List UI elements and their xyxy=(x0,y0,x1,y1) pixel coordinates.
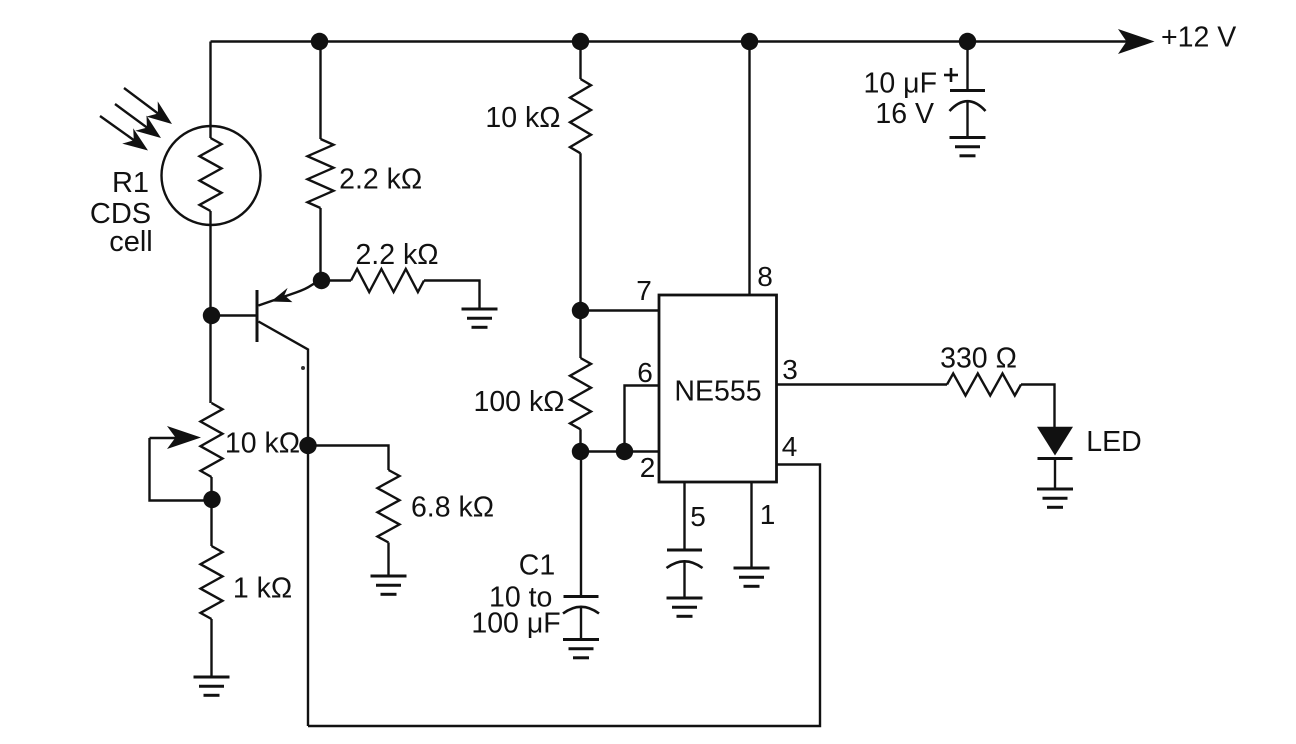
svg-text:R1: R1 xyxy=(112,167,149,199)
svg-text:+12 V: +12 V xyxy=(1161,22,1236,54)
svg-text:10 μF: 10 μF xyxy=(864,68,937,100)
svg-text:5: 5 xyxy=(690,501,706,532)
svg-text:6: 6 xyxy=(637,357,653,388)
svg-text:cell: cell xyxy=(109,226,153,258)
svg-text:100 kΩ: 100 kΩ xyxy=(473,386,564,418)
svg-text:10 kΩ: 10 kΩ xyxy=(485,102,560,134)
svg-text:C1: C1 xyxy=(519,550,555,582)
svg-text:2.2 kΩ: 2.2 kΩ xyxy=(355,239,438,271)
svg-text:8: 8 xyxy=(757,261,773,292)
svg-text:LED: LED xyxy=(1086,426,1141,458)
svg-text:NE555: NE555 xyxy=(674,376,761,408)
svg-text:4: 4 xyxy=(782,431,798,462)
svg-text:330 Ω: 330 Ω xyxy=(940,343,1017,375)
svg-text:100 μF: 100 μF xyxy=(471,608,560,640)
svg-text:10 kΩ: 10 kΩ xyxy=(225,428,300,460)
svg-text:1 kΩ: 1 kΩ xyxy=(233,573,292,605)
svg-text:1: 1 xyxy=(760,499,776,530)
svg-text:6.8 kΩ: 6.8 kΩ xyxy=(411,492,494,524)
svg-text:2: 2 xyxy=(640,452,656,483)
svg-text:3: 3 xyxy=(782,354,798,385)
svg-text:7: 7 xyxy=(636,275,652,306)
svg-text:16 V: 16 V xyxy=(875,98,934,130)
svg-text:2.2 kΩ: 2.2 kΩ xyxy=(339,164,422,196)
